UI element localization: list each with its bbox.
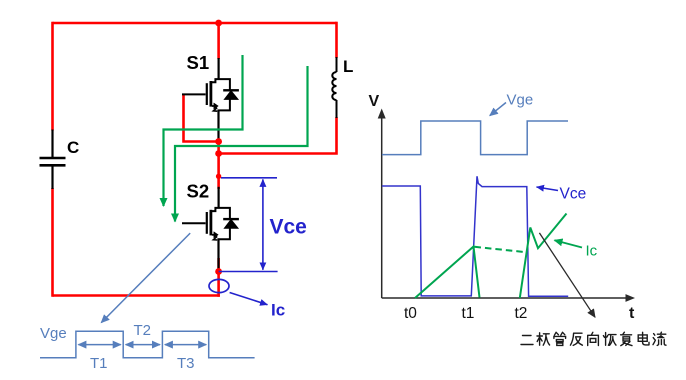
svg-text:Vge: Vge <box>507 92 534 109</box>
wire: right red rail below inductor L down to mid node <box>220 117 337 154</box>
svg-text:V: V <box>369 93 380 110</box>
svg-text:Vce: Vce <box>560 186 587 203</box>
wire: left red rail (lower part below capacitor C) <box>51 188 54 297</box>
glyph 管 <box>554 332 566 345</box>
t axis <box>382 297 630 299</box>
callout arrow: diode reverse recovery current <box>539 233 595 317</box>
label Vge (plot) with arrow <box>490 103 506 116</box>
svg-text:T2: T2 <box>134 322 152 339</box>
Vge gate timing waveform (bottom left) <box>40 331 255 358</box>
svg-text:S1: S1 <box>187 52 210 73</box>
transistor S2 (IGBT with anti-parallel diode) <box>182 187 239 268</box>
node: S1 gate tie junction dot <box>215 138 222 145</box>
svg-text:L: L <box>343 57 353 76</box>
T1 span arrow <box>78 344 120 346</box>
svg-text:Ic: Ic <box>586 243 598 260</box>
wire: bottom red bus <box>53 294 220 297</box>
Vce waveform trace (plot) <box>382 176 568 296</box>
glyph 反 <box>570 333 582 345</box>
label Vce (plot) with arrow <box>537 187 559 191</box>
svg-text:Ic: Ic <box>271 301 285 320</box>
node: bottom junction dot <box>215 268 222 275</box>
wire: red center leg between S1 source and S2 drain <box>217 139 220 189</box>
wire: green current path arrow B (outer loop) <box>175 66 308 222</box>
V axis <box>381 113 383 298</box>
glyph 向 <box>588 332 599 345</box>
svg-text:t: t <box>629 305 635 322</box>
label Ic (plot) with arrow <box>555 240 583 247</box>
glyph 流 <box>653 332 666 345</box>
t axis arrowhead <box>626 294 636 302</box>
Ic ramp 1 (green) <box>415 247 480 299</box>
glyph 电 <box>638 332 649 345</box>
wire: red center leg from top node to S1 drain <box>217 23 220 59</box>
Ic dashed continuation <box>475 247 527 252</box>
svg-text:T1: T1 <box>90 355 108 372</box>
Vce measurement top reference line <box>221 177 277 179</box>
wire: red S1 gate tie-down to mid node <box>184 94 219 141</box>
svg-text:C: C <box>67 138 79 157</box>
svg-text:t2: t2 <box>515 305 528 322</box>
annotation text: 二极管反向恢复电流 (drawn glyphs) <box>521 332 666 345</box>
node: Vce top probe dot <box>216 174 221 179</box>
T3 span arrow <box>165 344 206 346</box>
Ic ramp 2 with reverse recovery spike (green) <box>520 214 567 299</box>
T2 span arrow <box>126 344 160 346</box>
Vce measurement bottom reference line <box>219 271 278 273</box>
wire: top red bus from left rail to right rail <box>53 22 337 25</box>
svg-text:T3: T3 <box>177 355 195 372</box>
svg-text:t0: t0 <box>404 305 417 322</box>
callout arrow from S2 gate to Vge timing sketch <box>101 233 190 323</box>
glyph 二 <box>521 336 533 345</box>
capacitor C <box>40 130 66 190</box>
ellipse highlight on Ic node <box>209 279 229 292</box>
glyph 复 <box>621 332 632 345</box>
wire: left red rail (upper part above capacitor C) <box>51 22 54 131</box>
transistor S1 (IGBT with anti-parallel diode) <box>182 58 239 140</box>
wire: right red rail above inductor L <box>335 22 338 58</box>
inductor L <box>332 57 336 118</box>
svg-text:t1: t1 <box>462 305 475 322</box>
V axis arrowhead <box>378 109 386 119</box>
svg-text:Vge: Vge <box>40 325 67 342</box>
Vce double-headed arrow <box>262 179 264 269</box>
svg-text:S2: S2 <box>187 181 210 202</box>
wire: red center leg below S2 source to bottom bus <box>217 258 220 297</box>
glyph 极 <box>537 333 550 345</box>
Vge waveform trace (plot) <box>382 121 568 155</box>
glyph 恢 <box>603 333 616 346</box>
node: top junction dot <box>215 20 222 27</box>
wire: green current path arrow A (inner loop) <box>164 55 243 206</box>
arrow to Ic label <box>230 293 268 305</box>
node: mid rail junction dot <box>215 150 222 157</box>
svg-text:Vce: Vce <box>270 216 307 239</box>
